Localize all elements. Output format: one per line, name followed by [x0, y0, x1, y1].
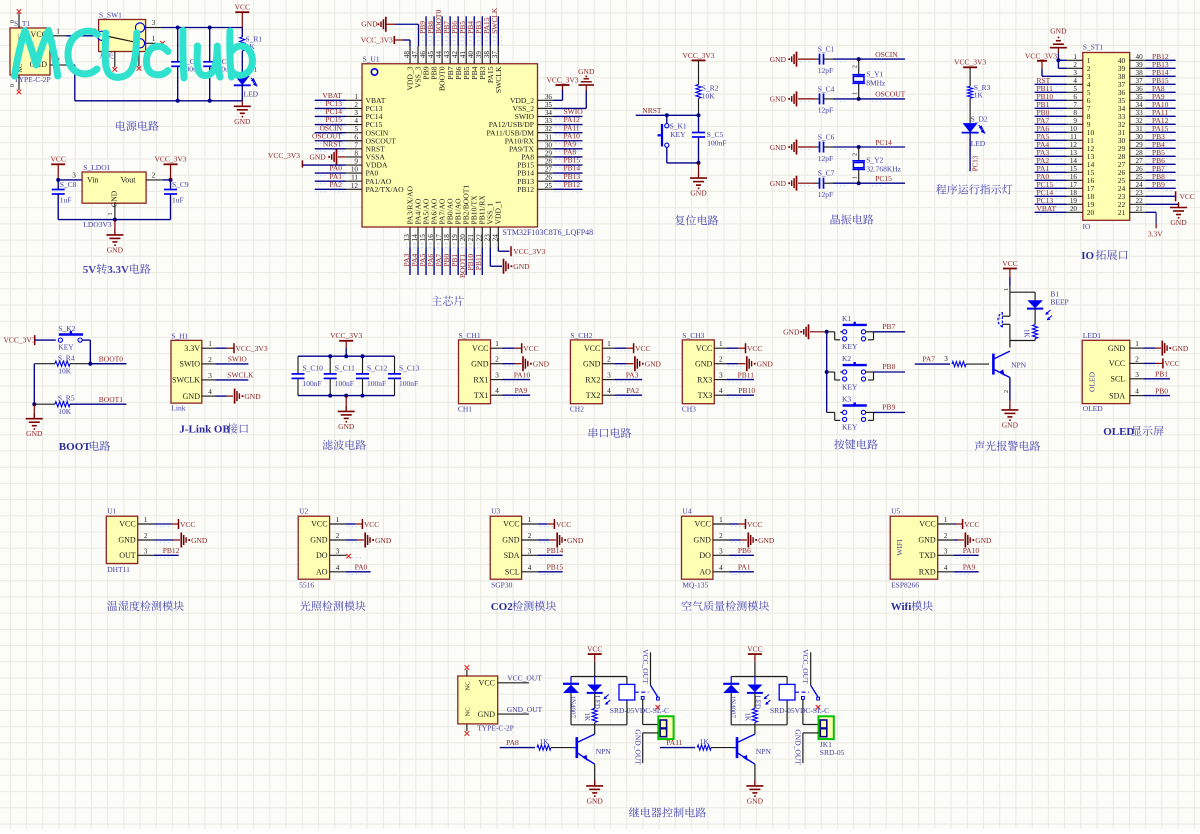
svg-text:VCC_OUT: VCC_OUT	[641, 649, 650, 684]
svg-text:GND: GND	[338, 422, 355, 431]
svg-text:GND: GND	[695, 359, 713, 368]
svg-text:100nF: 100nF	[303, 379, 322, 388]
svg-text:2: 2	[144, 532, 148, 540]
svg-text:7: 7	[354, 141, 358, 149]
svg-text:1uF: 1uF	[60, 196, 72, 205]
svg-text:AO: AO	[316, 568, 328, 577]
svg-text:PA11: PA11	[666, 738, 682, 747]
svg-text:TX2: TX2	[586, 391, 601, 400]
svg-text:OLED: OLED	[1103, 426, 1134, 438]
svg-text:3: 3	[354, 109, 358, 117]
svg-text:27: 27	[1136, 157, 1144, 165]
svg-text:3: 3	[152, 19, 156, 27]
svg-text:S_R4: S_R4	[58, 354, 75, 363]
svg-text:33: 33	[545, 117, 553, 125]
svg-text:S_C10: S_C10	[303, 363, 324, 372]
svg-text:22: 22	[475, 234, 483, 242]
svg-text:16: 16	[427, 234, 435, 242]
svg-text:VCC: VCC	[235, 3, 250, 12]
svg-text:3: 3	[1073, 69, 1077, 77]
svg-text:29: 29	[1136, 141, 1144, 149]
svg-text:SDA: SDA	[504, 551, 520, 560]
svg-text:3: 3	[144, 547, 148, 555]
svg-text:PB7: PB7	[882, 322, 895, 331]
svg-text:1: 1	[108, 213, 114, 216]
svg-text:9: 9	[1073, 117, 1077, 125]
svg-text:CH2: CH2	[570, 404, 584, 413]
svg-text:10K: 10K	[58, 367, 72, 376]
svg-text:VCC: VCC	[479, 679, 495, 688]
svg-text:Vin: Vin	[87, 176, 99, 185]
svg-text:0: 0	[9, 84, 16, 87]
svg-text:GND: GND	[758, 536, 775, 545]
svg-text:U2: U2	[299, 507, 308, 516]
svg-text:PB15: PB15	[547, 563, 564, 572]
svg-text:PB12: PB12	[163, 546, 180, 555]
svg-text:VCC_OUT: VCC_OUT	[801, 649, 810, 684]
svg-text:GND: GND	[757, 360, 774, 369]
svg-text:S_D2: S_D2	[971, 115, 988, 124]
svg-text:CH1: CH1	[458, 404, 472, 413]
svg-text:NC: NC	[464, 681, 471, 690]
svg-text:7: 7	[1073, 101, 1077, 109]
svg-text:VCC: VCC	[587, 645, 602, 654]
svg-text:TX1: TX1	[474, 391, 489, 400]
svg-text:PA9: PA9	[963, 563, 976, 572]
svg-text:19: 19	[451, 234, 459, 242]
svg-text:GND: GND	[1170, 218, 1187, 227]
svg-text:47: 47	[411, 51, 419, 59]
svg-text:4: 4	[208, 388, 212, 396]
svg-text:S_CH1: S_CH1	[459, 331, 481, 340]
svg-text:PB10: PB10	[738, 386, 755, 395]
svg-text:13: 13	[1070, 149, 1078, 157]
svg-text:VCC: VCC	[1002, 259, 1017, 268]
svg-text:GND: GND	[578, 67, 595, 76]
svg-text:22: 22	[1136, 197, 1144, 205]
svg-text:GND: GND	[375, 536, 392, 545]
svg-text:VCC_3V3: VCC_3V3	[513, 247, 545, 256]
svg-text:GND: GND	[1002, 420, 1019, 429]
svg-text:GND: GND	[26, 429, 43, 438]
svg-text:IO: IO	[1081, 250, 1094, 262]
svg-text:8: 8	[354, 149, 358, 157]
svg-text:VCC: VCC	[919, 520, 935, 529]
svg-text:KEY: KEY	[842, 423, 858, 432]
svg-text:GND: GND	[533, 360, 550, 369]
svg-text:3.3V: 3.3V	[107, 264, 129, 276]
svg-text:VCC: VCC	[119, 520, 135, 529]
svg-text:U3: U3	[491, 507, 500, 516]
svg-text:PA1: PA1	[738, 563, 751, 572]
svg-text:VCC: VCC	[503, 520, 519, 529]
svg-text:VCC: VCC	[311, 520, 327, 529]
svg-text:27: 27	[545, 166, 553, 174]
svg-text:1: 1	[853, 92, 859, 95]
svg-text:S_ST1: S_ST1	[1083, 43, 1104, 52]
svg-text:KEY: KEY	[842, 382, 858, 391]
svg-text:GND: GND	[1172, 344, 1189, 353]
svg-text:PB6: PB6	[738, 546, 751, 555]
svg-text:GND: GND	[309, 153, 326, 162]
svg-text:2: 2	[336, 532, 340, 540]
svg-text:12pF: 12pF	[818, 66, 833, 75]
svg-text:VCC_3V3: VCC_3V3	[954, 58, 986, 67]
svg-text:GND: GND	[183, 392, 201, 401]
svg-text:VCC: VCC	[747, 645, 762, 654]
svg-text:10: 10	[351, 166, 359, 174]
svg-text:3: 3	[719, 547, 723, 555]
svg-text:PC14: PC14	[875, 138, 892, 147]
svg-text:DO: DO	[699, 551, 711, 560]
svg-text:PA8: PA8	[506, 738, 519, 747]
svg-text:3: 3	[719, 372, 723, 380]
svg-text:PB1: PB1	[1155, 370, 1168, 379]
svg-text:32.768KHz: 32.768KHz	[866, 164, 901, 173]
svg-text:SCL: SCL	[505, 568, 520, 577]
svg-text:S_Y1: S_Y1	[866, 70, 883, 79]
svg-text:DO: DO	[316, 551, 328, 560]
svg-text:2: 2	[853, 153, 859, 156]
svg-text:S_C9: S_C9	[172, 180, 189, 189]
svg-text:IO: IO	[1083, 222, 1091, 231]
svg-text:S_T1: S_T1	[14, 19, 31, 28]
svg-text:15: 15	[419, 234, 427, 242]
svg-text:GND: GND	[1108, 344, 1126, 353]
svg-text:100nF: 100nF	[707, 139, 726, 148]
svg-text:CH3: CH3	[682, 404, 696, 413]
svg-text:20: 20	[459, 234, 467, 242]
svg-text:PA3: PA3	[626, 370, 639, 379]
svg-text:NPN: NPN	[596, 747, 612, 756]
svg-text:4: 4	[719, 387, 723, 395]
svg-text:1: 1	[354, 93, 358, 101]
svg-text:PB9: PB9	[882, 403, 895, 412]
svg-text:33: 33	[1136, 109, 1144, 117]
svg-text:VCC_3V3: VCC_3V3	[330, 331, 362, 340]
svg-text:S_CH2: S_CH2	[570, 331, 592, 340]
svg-text:34: 34	[1136, 101, 1144, 109]
svg-text:8: 8	[1073, 109, 1077, 117]
svg-text:1K: 1K	[700, 737, 710, 746]
svg-text:VCC_3V3: VCC_3V3	[546, 76, 578, 85]
svg-text:1K: 1K	[539, 737, 549, 746]
svg-text:16: 16	[1070, 173, 1078, 181]
svg-text:GND: GND	[502, 536, 520, 545]
svg-text:18: 18	[1070, 189, 1078, 197]
svg-text:19: 19	[1070, 197, 1078, 205]
svg-text:GND: GND	[918, 536, 936, 545]
svg-text:30: 30	[1136, 133, 1144, 141]
svg-text:VCC: VCC	[1109, 359, 1125, 368]
svg-text:S_C7: S_C7	[818, 169, 835, 178]
svg-text:OLED: OLED	[1083, 404, 1104, 413]
svg-text:LED: LED	[971, 139, 986, 148]
svg-text:NPN: NPN	[756, 747, 772, 756]
svg-text:S_R5: S_R5	[58, 394, 75, 403]
svg-text:34: 34	[545, 109, 553, 117]
svg-text:SRD-05VDC-SL-C: SRD-05VDC-SL-C	[770, 706, 829, 715]
svg-text:PA2: PA2	[329, 180, 342, 189]
svg-text:NRST: NRST	[323, 139, 343, 148]
svg-text:PA10: PA10	[963, 546, 980, 555]
svg-text:4: 4	[1073, 77, 1077, 85]
svg-text:4: 4	[354, 117, 358, 125]
svg-text:SRD-05VDC-SL-C: SRD-05VDC-SL-C	[610, 706, 669, 715]
svg-text:4: 4	[495, 387, 499, 395]
svg-text:PA0: PA0	[355, 563, 368, 572]
svg-text:SCL: SCL	[1111, 375, 1126, 384]
svg-text:PB11: PB11	[474, 254, 483, 271]
svg-text:14: 14	[411, 234, 419, 242]
svg-text:PB14: PB14	[547, 546, 564, 555]
svg-text:U1: U1	[107, 507, 116, 516]
svg-text:GND: GND	[118, 536, 136, 545]
svg-text:BOOT0: BOOT0	[99, 355, 123, 364]
svg-text:S_C5: S_C5	[707, 130, 724, 139]
svg-text:TYPE-C-2P: TYPE-C-2P	[477, 724, 514, 733]
svg-text:1: 1	[607, 340, 611, 348]
svg-text:GND: GND	[107, 245, 124, 254]
svg-text:100nF: 100nF	[399, 379, 418, 388]
svg-text:SWIO: SWIO	[228, 355, 248, 364]
svg-text:11: 11	[351, 174, 358, 182]
svg-text:LDO3V3: LDO3V3	[83, 220, 112, 229]
svg-text:45: 45	[427, 51, 435, 59]
svg-text:10K: 10K	[702, 91, 716, 100]
svg-text:GND: GND	[471, 359, 489, 368]
svg-text:GND: GND	[770, 95, 787, 104]
svg-text:32: 32	[545, 125, 553, 133]
svg-text:12pF: 12pF	[818, 154, 833, 163]
svg-text:37: 37	[491, 51, 499, 59]
svg-text:RX3: RX3	[697, 375, 712, 384]
svg-text:PA10: PA10	[514, 370, 531, 379]
svg-text:1K: 1K	[743, 713, 751, 722]
svg-text:WIFI: WIFI	[895, 539, 904, 556]
svg-text:1K: 1K	[974, 90, 984, 99]
svg-text:38: 38	[1136, 69, 1144, 77]
svg-text:12: 12	[1070, 141, 1078, 149]
svg-text:S_C13: S_C13	[399, 363, 420, 372]
svg-text:3.3V: 3.3V	[1148, 230, 1163, 239]
svg-text:3: 3	[1135, 371, 1139, 379]
svg-text:PA2/TX/AO: PA2/TX/AO	[366, 185, 405, 194]
svg-text:VCC: VCC	[1164, 359, 1179, 368]
svg-text:S_C6: S_C6	[818, 133, 835, 142]
svg-text:14: 14	[1070, 157, 1078, 165]
svg-text:3: 3	[495, 372, 499, 380]
svg-text:1: 1	[528, 516, 532, 524]
svg-text:VDD_1: VDD_1	[494, 200, 503, 224]
svg-text:25: 25	[1136, 173, 1144, 181]
svg-text:12pF: 12pF	[818, 190, 833, 199]
svg-text:RX2: RX2	[585, 375, 600, 384]
svg-text:SWCLK: SWCLK	[490, 7, 499, 34]
svg-text:15: 15	[1070, 165, 1078, 173]
svg-text:VCC: VCC	[747, 344, 762, 353]
svg-text:LED1: LED1	[1083, 331, 1102, 340]
svg-text:3: 3	[72, 172, 76, 180]
svg-text:GND: GND	[587, 796, 604, 805]
svg-text:K2: K2	[842, 354, 851, 363]
svg-text:2: 2	[495, 356, 499, 364]
svg-text:TXD: TXD	[919, 551, 936, 560]
svg-text:1: 1	[1135, 340, 1139, 348]
svg-text:VCC: VCC	[50, 155, 65, 164]
svg-text:31: 31	[545, 133, 553, 141]
svg-text:CO2: CO2	[491, 601, 514, 613]
svg-text:VCC: VCC	[964, 520, 979, 529]
svg-text:VCC: VCC	[364, 520, 379, 529]
svg-text:PB12: PB12	[564, 180, 581, 189]
svg-text:2: 2	[944, 532, 948, 540]
svg-text:PA2: PA2	[627, 386, 640, 395]
svg-text:26: 26	[1136, 165, 1144, 173]
svg-text:10K: 10K	[58, 407, 72, 416]
svg-text:OSCIN: OSCIN	[875, 50, 898, 59]
svg-text:S_SW1: S_SW1	[99, 11, 122, 20]
svg-text:0: 0	[9, 20, 16, 23]
svg-text:NRST: NRST	[642, 106, 662, 115]
svg-text:1: 1	[56, 28, 60, 36]
svg-text:18: 18	[443, 234, 451, 242]
svg-text:5: 5	[1073, 85, 1077, 93]
svg-text:SWIO: SWIO	[180, 360, 201, 369]
svg-text:S_C12: S_C12	[367, 363, 388, 372]
svg-text:40: 40	[1136, 53, 1144, 61]
svg-text:1: 1	[853, 176, 859, 179]
svg-text:AO: AO	[699, 568, 711, 577]
svg-text:2: 2	[152, 172, 156, 180]
svg-text:GND: GND	[583, 359, 601, 368]
svg-text:VCC: VCC	[180, 520, 195, 529]
svg-text:12: 12	[351, 182, 359, 190]
svg-text:S_U1: S_U1	[363, 55, 380, 64]
svg-text:1: 1	[152, 35, 156, 43]
svg-text:1uF: 1uF	[172, 196, 184, 205]
svg-text:4: 4	[607, 387, 611, 395]
svg-text:BOOT1: BOOT1	[99, 395, 123, 404]
svg-text:5: 5	[354, 125, 358, 133]
svg-text:J-Link OB: J-Link OB	[179, 424, 230, 436]
svg-text:5V: 5V	[83, 264, 97, 276]
svg-text:5516: 5516	[299, 581, 314, 590]
svg-text:Link: Link	[171, 404, 185, 413]
svg-text:2: 2	[853, 65, 859, 68]
svg-text:3: 3	[336, 547, 340, 555]
svg-text:21: 21	[1118, 208, 1126, 217]
svg-text:GND: GND	[694, 536, 712, 545]
svg-text:2: 2	[354, 101, 358, 109]
svg-text:25: 25	[545, 182, 553, 190]
svg-text:3: 3	[944, 355, 948, 363]
svg-text:PB8: PB8	[882, 362, 895, 371]
svg-text:1: 1	[1073, 53, 1077, 61]
svg-text:KEY: KEY	[842, 342, 858, 351]
svg-text:U5: U5	[891, 507, 900, 516]
svg-text:S_C1: S_C1	[818, 45, 835, 54]
svg-text:VCC: VCC	[584, 344, 600, 353]
svg-text:36: 36	[545, 93, 553, 101]
svg-text:VBAT: VBAT	[1037, 204, 1057, 213]
svg-text:GND_OUT: GND_OUT	[794, 729, 803, 765]
svg-text:1N4007: 1N4007	[729, 696, 737, 719]
svg-text:GND: GND	[110, 190, 119, 207]
svg-text:VCC: VCC	[694, 520, 710, 529]
svg-text:17: 17	[435, 234, 443, 242]
svg-text:23: 23	[1136, 189, 1144, 197]
svg-text:2: 2	[719, 532, 723, 540]
svg-text:GND: GND	[567, 536, 584, 545]
svg-text:VCC_3V3: VCC_3V3	[361, 36, 393, 45]
svg-text:Wifi: Wifi	[891, 601, 912, 613]
svg-text:42: 42	[451, 51, 459, 59]
svg-text:37: 37	[1136, 77, 1144, 85]
svg-text:21: 21	[1136, 205, 1144, 213]
svg-text:DHT11: DHT11	[107, 565, 130, 574]
svg-text:TX3: TX3	[698, 391, 713, 400]
svg-text:KEY: KEY	[58, 343, 74, 352]
svg-text:S_H1: S_H1	[171, 331, 188, 340]
svg-text:2: 2	[1073, 61, 1077, 69]
svg-text:PB9: PB9	[1152, 180, 1165, 189]
svg-text:6: 6	[1073, 93, 1077, 101]
svg-text:VCC_OUT: VCC_OUT	[507, 674, 542, 683]
svg-text:KEY: KEY	[670, 130, 686, 139]
svg-text:S_K2: S_K2	[58, 324, 75, 333]
svg-text:2: 2	[1135, 355, 1139, 363]
svg-text:43: 43	[443, 51, 451, 59]
svg-text:100nF: 100nF	[335, 379, 354, 388]
svg-text:S_C8: S_C8	[60, 180, 77, 189]
svg-text:39: 39	[1136, 61, 1144, 69]
svg-text:BEEP: BEEP	[1050, 298, 1068, 307]
svg-text:36: 36	[1136, 85, 1144, 93]
svg-text:1: 1	[719, 340, 723, 348]
svg-text:3: 3	[528, 547, 532, 555]
svg-text:SWCLK: SWCLK	[172, 376, 200, 385]
svg-text:11: 11	[1070, 133, 1077, 141]
svg-text:SWCLK: SWCLK	[494, 66, 503, 93]
svg-text:2: 2	[607, 356, 611, 364]
svg-text:100nF: 100nF	[367, 379, 386, 388]
svg-text:GND: GND	[690, 189, 707, 198]
svg-text:GND: GND	[478, 710, 496, 719]
svg-text:2: 2	[1004, 390, 1010, 393]
svg-text:PB12: PB12	[517, 185, 534, 194]
svg-text:VCC: VCC	[523, 344, 538, 353]
svg-text:28: 28	[545, 158, 553, 166]
svg-text:GND: GND	[234, 117, 251, 126]
svg-text:20: 20	[1070, 205, 1078, 213]
svg-text:13: 13	[403, 234, 411, 242]
svg-text:RX1: RX1	[473, 375, 488, 384]
svg-text:46: 46	[419, 51, 427, 59]
svg-text:1: 1	[495, 340, 499, 348]
svg-text:PB11: PB11	[738, 370, 755, 379]
svg-text:4: 4	[528, 564, 532, 572]
svg-text:PA7: PA7	[922, 355, 935, 364]
svg-text:4: 4	[336, 564, 340, 572]
svg-text:VCC: VCC	[472, 344, 488, 353]
svg-text:2: 2	[528, 532, 532, 540]
svg-text:GND: GND	[783, 328, 800, 337]
svg-text:Vout: Vout	[121, 176, 137, 185]
svg-text:4: 4	[944, 564, 948, 572]
svg-text:OSCOUT: OSCOUT	[875, 90, 905, 99]
svg-text:1K: 1K	[1023, 329, 1031, 338]
